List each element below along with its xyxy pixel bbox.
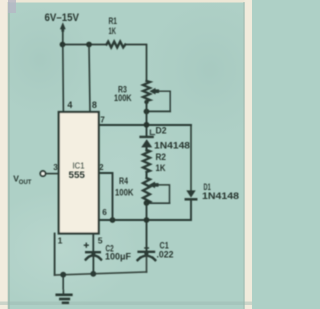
wire: R4 to pin 2/6 row — [146, 203, 148, 251]
wire: pin 8 drop — [89, 45, 90, 113]
svg-text:5: 5 — [98, 235, 103, 245]
resistor R1 1K — [107, 42, 126, 48]
node: R3 wiper tie — [144, 109, 150, 115]
svg-text:R2: R2 — [156, 152, 167, 162]
svg-text:1K: 1K — [156, 163, 166, 173]
wire: pin 2 to junction — [99, 173, 113, 220]
R3 wiper arrow — [147, 88, 170, 112]
svg-text:R1: R1 — [109, 16, 118, 26]
svg-text:4: 4 — [67, 100, 72, 110]
svg-text:100K: 100K — [114, 93, 132, 103]
svg-text:7: 7 — [100, 116, 105, 125]
svg-text:6: 6 — [102, 208, 107, 217]
wire: R2 to R4 — [145, 172, 147, 178]
svg-text:OUT: OUT — [19, 180, 32, 186]
output terminal Vout — [40, 171, 58, 176]
diode D2 1N4148 — [141, 137, 153, 151]
svg-text:100μF: 100μF — [105, 252, 131, 262]
power supply arrow 6V-15V — [60, 22, 66, 45]
svg-text:R4: R4 — [119, 176, 128, 186]
wire: pin 4 drop — [62, 45, 65, 113]
wire: rail from R1 to right corner — [125, 45, 147, 82]
svg-text:100K: 100K — [115, 187, 134, 197]
ground symbol — [57, 275, 72, 303]
resistor R2 1K — [143, 150, 150, 172]
wire: top supply rail — [63, 44, 107, 46]
node: R3 bottom — [144, 100, 148, 104]
node: pin7 / main line — [144, 122, 150, 128]
svg-text:555: 555 — [69, 170, 86, 181]
svg-text:.022: .022 — [157, 250, 174, 260]
label Vout — [13, 174, 32, 186]
node: R4 bottom tie — [144, 200, 150, 206]
capacitor C2 100uF — [84, 243, 101, 273]
R4 wiper arrow — [147, 182, 170, 204]
svg-text:2: 2 — [99, 163, 104, 172]
wire: R3 to pin7 node — [146, 101, 148, 137]
capacitor C1 .022 — [138, 248, 156, 272]
svg-text:3: 3 — [53, 162, 58, 172]
potentiometer R3 100K — [143, 81, 150, 101]
node: main line on pin6 row — [144, 217, 150, 223]
svg-text:1N4148: 1N4148 — [202, 191, 239, 201]
diode D1 1N4148 — [186, 190, 196, 199]
node junction at arrow — [60, 42, 66, 48]
wire: D1 to pin 2/6 row — [99, 200, 191, 220]
node: C2 tie — [90, 271, 96, 277]
node junction at pin8 drop — [86, 42, 92, 48]
C2 polarity + — [84, 243, 88, 247]
wire: pin 1 drop to ground rail — [54, 234, 56, 276]
svg-text:6V–15V: 6V–15V — [45, 12, 80, 24]
wire: bottom ground rail — [55, 272, 147, 275]
wire: pin 5 / C2 branch — [92, 234, 94, 252]
svg-text:1K: 1K — [109, 26, 117, 36]
potentiometer R4 100K — [143, 178, 150, 203]
svg-text:D2: D2 — [156, 126, 167, 136]
svg-text:1N4148: 1N4148 — [154, 141, 190, 151]
node: ground tie — [60, 272, 66, 278]
wire: pin 7 row — [99, 124, 191, 126]
page background — [0, 0, 252, 309]
node: pin2 tie — [110, 217, 116, 223]
svg-text:8: 8 — [92, 100, 97, 110]
wire: right rail (pin7 node down to D1) — [190, 125, 192, 191]
IC1 555 timer body — [59, 112, 99, 234]
svg-text:1: 1 — [58, 236, 63, 246]
